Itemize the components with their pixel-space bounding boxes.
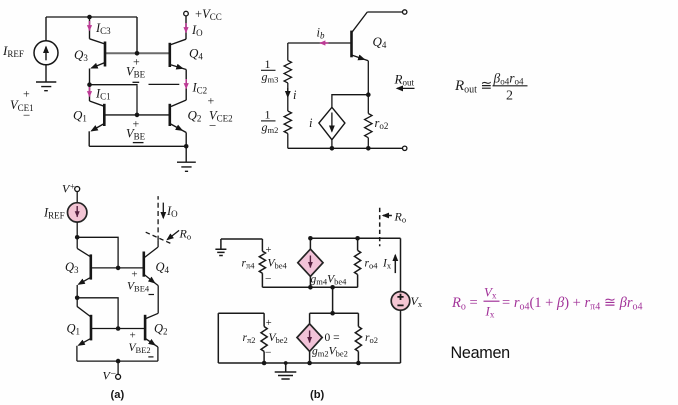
svg-text:0 =: 0 =: [325, 332, 340, 344]
svg-text:+: +: [266, 318, 272, 329]
svg-text:i: i: [309, 116, 313, 130]
svg-text:+: +: [131, 269, 137, 281]
svg-text:(b): (b): [310, 389, 325, 401]
svg-text:+: +: [208, 94, 215, 108]
svg-text:+: +: [23, 87, 30, 101]
svg-text:+: +: [133, 55, 140, 69]
svg-text:−: −: [209, 118, 216, 133]
svg-text:Neamen: Neamen: [451, 344, 510, 362]
svg-text:−: −: [23, 108, 30, 123]
svg-text:−: −: [265, 274, 272, 286]
svg-text:−: −: [265, 347, 272, 359]
svg-text:+: +: [130, 330, 136, 342]
svg-text:i: i: [293, 88, 297, 102]
svg-text:+: +: [266, 245, 272, 256]
svg-text:(a): (a): [111, 389, 125, 401]
svg-text:2: 2: [506, 89, 513, 104]
